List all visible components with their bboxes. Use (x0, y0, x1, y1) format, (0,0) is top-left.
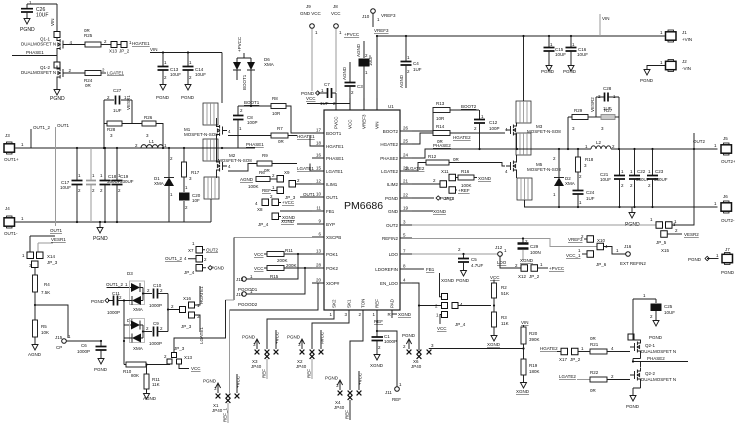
terminal J14 PGOOD2 (236, 267, 306, 307)
wire LDO pin to J12 (412, 247, 498, 254)
svg-text:X11: X11 (441, 169, 449, 174)
svg-text:XGND: XGND (487, 342, 501, 347)
svg-text:REF: REF (262, 188, 271, 193)
capacitor C21 10UF out2 (600, 149, 625, 208)
connector J3 OUT1+ (4, 133, 24, 162)
transistor M2 source fingers to ground (204, 177, 219, 222)
svg-text:PGND: PGND (242, 335, 256, 340)
svg-text:JP40: JP40 (251, 364, 262, 369)
svg-text:J5: J5 (723, 136, 728, 141)
connector J6 OUT2- (714, 194, 735, 223)
svg-text:R17: R17 (191, 170, 200, 175)
node VCC label (306, 96, 350, 104)
svg-text:OUT2: OUT2 (693, 139, 705, 144)
jumper X11 JP_3 (ILIM2) (412, 169, 458, 201)
capacitor C16 10UF (566, 35, 589, 62)
U1 top pin VIN (375, 98, 380, 129)
svg-text:J3: J3 (5, 133, 10, 138)
capacitor C8 100PF boot (233, 106, 258, 148)
svg-text:C23: C23 (655, 169, 664, 174)
svg-text:10UF: 10UF (195, 72, 206, 77)
svg-text:26: 26 (403, 126, 409, 131)
wire OUT1 tap (gray) (56, 123, 70, 226)
transistor Q2-1 DUALMOSFET N (620, 311, 676, 362)
transistor M3 drain fingers (516, 101, 531, 123)
U1 pin 3 OUT2 (386, 220, 412, 228)
U1 top pin VCC (348, 98, 353, 129)
svg-text:PGND: PGND (287, 335, 301, 340)
svg-text:OUT2: OUT2 (386, 223, 398, 228)
capacitor C11 100NF (107, 291, 124, 315)
capacitor C12 100PF boot2 (474, 110, 500, 149)
svg-text:13: 13 (316, 249, 322, 254)
capacitor C9 100NF (143, 321, 168, 346)
node XGND at BYP (281, 219, 312, 224)
svg-text:LGATE2: LGATE2 (559, 374, 576, 379)
terminal J9 GND VCC (300, 4, 322, 35)
svg-text:PM6686: PM6686 (344, 200, 383, 212)
connector J2 -VIN (647, 59, 691, 72)
svg-text:VCC: VCC (437, 326, 447, 331)
svg-text:HGATE1: HGATE1 (199, 286, 204, 304)
svg-text:R6: R6 (259, 170, 265, 175)
svg-text:390K: 390K (529, 337, 540, 342)
ground PGND test point X3 (242, 335, 260, 355)
svg-text:PGND: PGND (541, 69, 555, 74)
U1 pin 26 BOOT2 (383, 126, 412, 134)
terminal J11 REF (377, 331, 402, 402)
svg-text:10UF: 10UF (664, 310, 675, 315)
svg-text:VREF3: VREF3 (362, 114, 367, 129)
svg-text:10UF: 10UF (600, 177, 611, 182)
wire PHASE2 rail (412, 143, 591, 158)
resistor R16 100K (ILIM2) (458, 169, 492, 188)
svg-text:R21: R21 (590, 342, 599, 347)
node VESR2 (684, 232, 699, 237)
svg-text:X8: X8 (257, 207, 263, 212)
jumper X5 JP_4 (EN_LDO) (418, 273, 491, 331)
node +VCC test stub (235, 374, 241, 398)
ground PGND below C5 (456, 267, 470, 283)
U1 pin 28 POK2 (312, 263, 339, 271)
wire VIN to M3 drain (522, 35, 524, 101)
svg-text:X10: X10 (597, 238, 606, 243)
capacitor C14 10UF (183, 51, 207, 81)
svg-text:10: 10 (316, 192, 322, 197)
svg-text:PGND: PGND (563, 69, 577, 74)
svg-text:LGATE1: LGATE1 (107, 71, 124, 76)
capacitor C7 1UF (320, 82, 337, 106)
svg-text:XMA: XMA (565, 181, 575, 186)
svg-text:REF: REF (262, 369, 267, 378)
U1 bottom pin PAD (388, 298, 395, 318)
svg-text:PGND: PGND (440, 196, 454, 201)
capacitor C25 10UF (633, 293, 675, 319)
svg-text:R20: R20 (529, 331, 538, 336)
node XGND at PAD (392, 312, 412, 317)
ground PGND test point X4 (325, 376, 343, 396)
svg-text:JP_4: JP_4 (455, 322, 466, 327)
svg-text:J8: J8 (333, 4, 338, 9)
svg-text:28: 28 (316, 263, 322, 268)
svg-text:+PVCC: +PVCC (549, 266, 565, 271)
svg-text:J13: J13 (236, 277, 244, 282)
ground PGND below C13 (156, 81, 170, 100)
svg-text:10UF: 10UF (368, 55, 373, 66)
connector J7 PGND (688, 247, 735, 275)
resistor R24 0R (LGATE1 gate) (68, 68, 107, 89)
svg-text:PGND: PGND (93, 236, 108, 242)
svg-text:LGATE1: LGATE1 (297, 166, 314, 171)
svg-text:REF: REF (307, 369, 312, 378)
U1 pin 11 FB1 (312, 206, 335, 214)
jumper X7 JP_4 (OUT select) (188, 241, 218, 253)
wire SK2 to test cluster A (267, 318, 334, 349)
svg-text:SK1: SK1 (347, 299, 352, 308)
svg-text:AGND: AGND (399, 74, 404, 88)
node OUT1 at pin (300, 192, 315, 197)
ground PGND test point X2 (287, 335, 305, 355)
node LGATE1 (107, 71, 124, 76)
svg-text:HGATE1: HGATE1 (297, 134, 315, 139)
svg-text:MOSFET-N-SO8: MOSFET-N-SO8 (218, 158, 252, 163)
svg-text:OUT1: OUT1 (57, 123, 69, 128)
svg-text:XMA: XMA (264, 62, 274, 67)
svg-text:4.7UF: 4.7UF (471, 263, 484, 268)
svg-text:C9: C9 (153, 321, 159, 326)
node BOOT2 (461, 104, 477, 109)
svg-text:VCC: VCC (490, 275, 500, 280)
node PGND at pin 22 (412, 196, 454, 201)
wire D4 junction vertical (142, 325, 144, 338)
wire ground rail right (524, 206, 718, 208)
node OUT1_2 into X7 (165, 256, 207, 263)
diode D3 XMA bottom (124, 281, 145, 312)
svg-text:REF: REF (374, 319, 383, 324)
svg-text:R29: R29 (574, 108, 583, 113)
node VREF3 label (374, 28, 389, 33)
wire VIN input top (27, 0, 57, 8)
wire esr2 loop verticals (596, 97, 620, 150)
svg-text:330UF: 330UF (654, 177, 668, 182)
resistor R26 esr (142, 115, 164, 149)
wire VIN to M1 drain (221, 53, 223, 104)
svg-text:DUALMOSFET N: DUALMOSFET N (21, 70, 56, 75)
svg-text:1UF: 1UF (413, 67, 422, 72)
node OUT1_2 to D3 (106, 282, 131, 288)
svg-text:XGND: XGND (433, 209, 447, 214)
svg-text:C6: C6 (81, 343, 87, 348)
svg-text:OUT2: OUT2 (206, 248, 218, 253)
svg-text:R26: R26 (144, 115, 153, 120)
U1 pin 4 EN_LDO (380, 278, 412, 286)
svg-text:+VCC: +VCC (236, 375, 241, 388)
svg-text:10UF: 10UF (555, 52, 566, 57)
svg-text:JP40: JP40 (334, 405, 345, 410)
svg-text:+VCC: +VCC (282, 200, 295, 205)
diode D4 XMA bottom (123, 319, 145, 352)
svg-text:JP_5: JP_5 (656, 240, 667, 245)
svg-text:BOOT1: BOOT1 (242, 74, 247, 90)
svg-text:XMA: XMA (133, 346, 143, 351)
svg-text:J9: J9 (306, 4, 311, 9)
svg-text:J15: J15 (55, 335, 63, 340)
capacitor C2 10UF tantalum on VREF3 (356, 41, 373, 110)
svg-text:HGATE2: HGATE2 (453, 135, 471, 140)
U1 pin 22 PGND (385, 193, 412, 201)
wire divider tap (429, 348, 524, 350)
svg-text:VESR2: VESR2 (590, 97, 595, 112)
node FB1 at LDOREFIN (412, 267, 435, 272)
U1 top pin VREF3 (362, 98, 367, 129)
capacitor C27 1UF esr loop (104, 88, 132, 113)
svg-text:PGND: PGND (181, 95, 195, 100)
inductor L1 (135, 139, 167, 148)
node AVCC test stub (319, 330, 325, 354)
svg-text:C7: C7 (324, 82, 330, 87)
wire TON to cluster D (350, 318, 363, 390)
svg-text:XMA: XMA (154, 181, 164, 186)
svg-text:VREF3: VREF3 (374, 28, 389, 33)
U1 pin 8 LDOREFIN (375, 264, 412, 272)
svg-text:X17: X17 (559, 357, 568, 362)
svg-text:1UF: 1UF (113, 108, 122, 113)
svg-text:JP40: JP40 (411, 364, 422, 369)
capacitor C20 10NF snubber (179, 193, 201, 223)
svg-text:PGND: PGND (50, 96, 65, 102)
transistor M1 MOSFET-N-SO8 drain fingers (203, 103, 218, 125)
diode D3 XMA top (127, 271, 143, 292)
svg-text:PGOOD2: PGOOD2 (238, 302, 258, 307)
svg-text:11K: 11K (501, 321, 509, 326)
svg-text:R27: R27 (604, 108, 613, 113)
U1 pin 15 LGATE1 (312, 166, 343, 174)
svg-text:100K: 100K (248, 184, 259, 189)
svg-text:PGND: PGND (20, 27, 35, 33)
wire XSCPB gray then down (174, 238, 312, 353)
svg-text:+PVCC: +PVCC (344, 32, 360, 37)
svg-text:+PVCC: +PVCC (237, 36, 242, 52)
svg-text:ILIM1: ILIM1 (326, 182, 338, 187)
wire VIN top rail to J1 (376, 35, 664, 110)
capacitor C30 not fitted (gray) (86, 148, 96, 222)
svg-text:PGND: PGND (456, 278, 470, 283)
svg-text:R3: R3 (501, 315, 507, 320)
svg-text:R19: R19 (529, 363, 538, 368)
U1 pin 7 LDO (389, 249, 412, 257)
svg-text:U1: U1 (388, 104, 394, 109)
capacitor C24 1UF snubber2 (573, 190, 595, 208)
svg-text:J4: J4 (5, 206, 10, 211)
jumper X14 JP_3 (22, 252, 58, 268)
jumper X13 JP_2 (109, 42, 130, 54)
svg-text:PGND: PGND (640, 78, 654, 83)
svg-text:LGATE2: LGATE2 (381, 169, 398, 174)
jumper X15 JP_5 (VESR2) (650, 217, 682, 253)
jumper X1 JP40 test pins (212, 394, 230, 413)
jumper X8 JP_4 (FB1) (255, 194, 312, 227)
wire C11 to D4 vertical (123, 299, 125, 325)
svg-text:J2: J2 (682, 59, 687, 64)
svg-text:0R: 0R (590, 336, 597, 341)
svg-text:-VIN: -VIN (682, 66, 691, 71)
ground PGND below C15 (541, 62, 555, 74)
U1 pin 20 XIOP# (312, 278, 340, 286)
svg-text:CP: CP (56, 345, 62, 350)
ground PGND below C25 (649, 317, 663, 340)
svg-text:10UF: 10UF (36, 13, 48, 19)
svg-text:DUALMOSFET N: DUALMOSFET N (21, 42, 56, 47)
U1 pin 23 LGATE2 (381, 166, 412, 174)
wire PHASE1 stub left (12, 50, 57, 62)
resistor R2 51K (490, 275, 509, 312)
svg-text:+VCC: +VCC (275, 331, 280, 344)
resistor R25 0R (HGATE1 gate) (68, 28, 112, 47)
wire XIOP# to cluster C (230, 283, 319, 393)
capacitor C28 1UF esr2 loop (590, 86, 619, 112)
capacitor C3 1UF on VCC (342, 62, 363, 110)
node HGATE1 (129, 40, 150, 46)
svg-text:HGATE2: HGATE2 (380, 142, 398, 147)
capacitor C23 330UF out2 (647, 148, 668, 208)
resistor R21 0R (Q2-1 gate) (590, 336, 620, 354)
diode D2 XMA (553, 148, 575, 208)
svg-text:R28: R28 (107, 127, 116, 132)
capacitor C29 100N on REFIN2 (518, 237, 541, 263)
svg-text:R2: R2 (501, 285, 507, 290)
capacitor C5 4.7UF (458, 253, 484, 268)
svg-text:R16: R16 (461, 169, 470, 174)
jumper X6 JP40 test pins (411, 350, 422, 369)
svg-text:100P: 100P (489, 126, 500, 131)
ground XGND below R3 (487, 332, 501, 347)
U1 top pin PVCC (334, 116, 339, 129)
svg-text:R9: R9 (262, 153, 268, 158)
jumper X17 JP_2 (Q2 gate) (559, 346, 590, 362)
svg-text:REF: REF (392, 397, 401, 402)
ground PGND diamond left of C11 (91, 298, 109, 304)
wire BOOT2 to R13 (412, 110, 433, 131)
svg-text:1000P: 1000P (149, 303, 162, 308)
U1 pin 24 PHASE2 (380, 153, 412, 161)
svg-text:R8: R8 (272, 96, 278, 101)
svg-text:FB1: FB1 (326, 209, 335, 214)
svg-text:OUT2-: OUT2- (721, 218, 735, 223)
svg-text:C25: C25 (664, 304, 673, 309)
svg-text:J11: J11 (385, 390, 392, 395)
resistor R12 0R (LGATE2) (405, 154, 505, 171)
ground PGND at X7 (184, 265, 225, 276)
U1 bottom pin TON (359, 299, 366, 318)
svg-text:PGND: PGND (626, 404, 640, 409)
ground XGND below R19 (516, 379, 530, 394)
terminal J10 VREF3 (362, 9, 396, 27)
jumper X12 JP_2 (LDO to PVCC) (500, 256, 565, 279)
svg-text:XSCPB: XSCPB (326, 235, 341, 240)
terminal J12 LDO (495, 245, 507, 265)
wire OUT2 tap to X15 (672, 133, 695, 225)
svg-text:XGND: XGND (516, 389, 530, 394)
svg-text:PHASE1: PHASE1 (326, 156, 344, 161)
svg-text:0R: 0R (590, 388, 597, 393)
transistor M3 MOSFET-N-SO8 (505, 123, 561, 150)
svg-text:R25: R25 (84, 33, 93, 38)
svg-text:18: 18 (316, 141, 322, 146)
svg-text:VESR1: VESR1 (51, 237, 66, 242)
svg-text:AGND: AGND (143, 396, 157, 401)
capacitor C17 10UF (60, 147, 83, 223)
jumper X3 JP40 test pins (251, 350, 269, 369)
jumper X16 JP_3 pump (180, 296, 201, 329)
resistor R28 esr (104, 121, 142, 138)
resistor R9 0R (LGATE1) (228, 153, 324, 173)
svg-text:TON: TON (361, 299, 366, 308)
svg-text:OUT1_2: OUT1_2 (165, 256, 183, 261)
resistor R13 10R (433, 101, 479, 121)
node +VCC test stub (357, 371, 363, 395)
svg-text:R18: R18 (585, 157, 594, 162)
wire SK1 to test cluster B (312, 318, 349, 349)
terminal J16 EXT REFIN2 (604, 244, 647, 266)
svg-text:0R: 0R (278, 139, 285, 144)
wire PVCC pin vertical (335, 93, 337, 110)
node REF label (374, 318, 383, 332)
U1 pin 25 HGATE2 (380, 139, 412, 147)
svg-text:JP_6: JP_6 (596, 262, 607, 267)
U1 pin 16 PHASE1 (312, 153, 344, 161)
capacitor C19 330UF (112, 147, 134, 223)
svg-text:HGATE1: HGATE1 (132, 41, 150, 46)
svg-text:ILIM2: ILIM2 (387, 182, 399, 187)
svg-text:C27: C27 (113, 88, 122, 93)
svg-text:1000P: 1000P (107, 310, 120, 315)
wire VIN vertical to Q1 (50, 4, 57, 38)
capacitor C26 (21, 7, 48, 19)
diode D6 XMA boot supply (233, 36, 274, 106)
ground PGND below C16 (563, 62, 577, 74)
svg-text:20: 20 (316, 278, 322, 283)
resistor R5 10K (33, 304, 50, 341)
svg-text:JP_3: JP_3 (174, 346, 185, 351)
svg-text:DUALMOSFET N: DUALMOSFET N (641, 377, 676, 382)
svg-text:C29: C29 (530, 244, 539, 249)
svg-text:10UF: 10UF (60, 185, 71, 190)
terminal J15 CP (55, 334, 101, 350)
svg-text:DUALMOSFET N: DUALMOSFET N (641, 349, 676, 354)
svg-text:XIOP#: XIOP# (326, 281, 340, 286)
svg-text:XGND: XGND (520, 258, 534, 263)
svg-text:PGND: PGND (325, 376, 339, 381)
svg-text:11K: 11K (152, 382, 160, 387)
svg-text:JP40: JP40 (296, 364, 307, 369)
svg-text:OUT1: OUT1 (326, 195, 338, 200)
resistor R15 200K (POK2) (254, 263, 312, 279)
svg-text:1UF: 1UF (586, 196, 595, 201)
transistor M5 MOSFET-N-SO8 low side (505, 155, 561, 178)
ground PGND below C6 (94, 355, 108, 372)
svg-text:GND: GND (388, 209, 399, 214)
svg-text:PGND: PGND (211, 266, 225, 271)
svg-text:J10: J10 (362, 14, 370, 19)
wire EN_LDO down (412, 283, 419, 350)
svg-text:XGND: XGND (398, 312, 412, 317)
svg-text:PGND: PGND (94, 367, 108, 372)
svg-text:JP_2: JP_2 (570, 357, 581, 362)
wire OUT2 rail right (611, 148, 718, 150)
svg-text:PGND: PGND (156, 95, 170, 100)
capacitor C13 10UF (158, 51, 182, 81)
svg-text:VIN: VIN (50, 18, 55, 26)
